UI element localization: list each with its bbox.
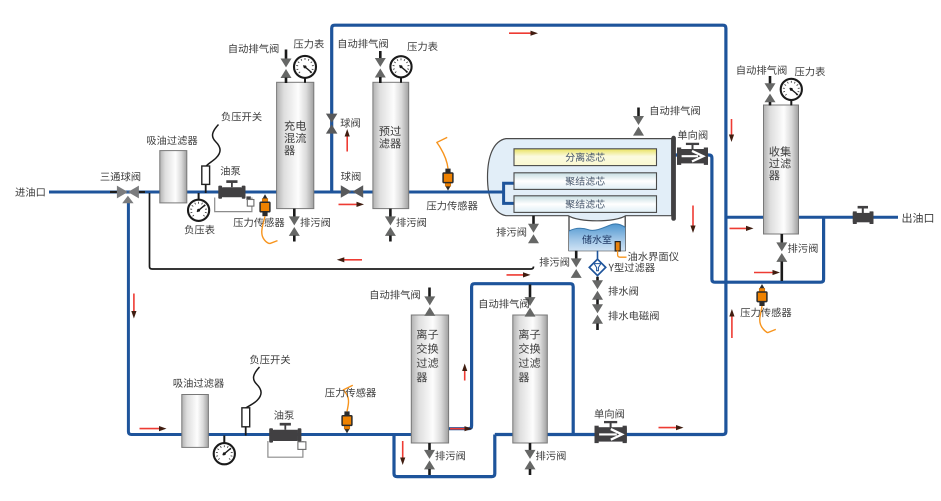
pressure gauge 压力表 on pre-filter: [400, 77, 402, 83]
auto exhaust valve 自动排气阀 on separator: [637, 108, 640, 118]
separation element 分离滤芯: [514, 149, 657, 166]
label: 油水界面仪: [628, 252, 679, 262]
oil pump 油泵 (bottom): [280, 423, 291, 426]
drain valve 排污阀 under charge mixer: [293, 209, 296, 217]
label: 排污阀 tank: [497, 227, 527, 236]
label: 压力传感器 3: [325, 388, 376, 398]
ball valve 球阀 on main line: [341, 185, 363, 198]
vacuum gauge 负压表 (bottom, unlabeled): [223, 436, 225, 444]
separator tank right end plate: [671, 136, 676, 221]
pressure sensor 压力传感器 on outlet bottom line: [760, 284, 765, 288]
flow arrow: after bottom check valve: [659, 427, 679, 429]
label: 吸油过滤器 top: [147, 136, 197, 146]
flow arrow: drain recirculation line toward left: [342, 259, 362, 261]
label: 预过滤器 (in vessel): [379, 126, 401, 136]
wire: interface probe cable: [618, 251, 627, 258]
label: 油泵 top: [221, 166, 241, 175]
suction filter 吸油过滤器 (top): [160, 151, 187, 203]
vacuum gauge 负压表 (top): [198, 193, 200, 200]
label: 自动排气阀 ion filter 2: [480, 299, 529, 309]
flow arrow: downcomer top: [731, 119, 733, 137]
label: 三通球阀: [101, 172, 141, 181]
flow arrow: bottom outlet link: [754, 272, 775, 274]
flow arrow: ion filter 1 outlet: [450, 428, 467, 430]
label: 排污阀 ion 1: [435, 451, 465, 460]
vacuum switch 负压开关 (bottom): [246, 367, 261, 408]
drain valve 排污阀 under collection filter: [780, 234, 783, 243]
label: 压力传感器 1: [234, 218, 285, 228]
label: 自动排气阀 separator: [651, 106, 700, 116]
label: 吸油过滤器 bottom: [174, 378, 224, 388]
label: 出油口 outlet: [903, 213, 933, 223]
label: 自动排气阀 ion filter 1: [371, 290, 420, 300]
outlet shut-off valve: [853, 213, 874, 222]
wire: coalescer feed manifold: [504, 183, 515, 203]
oil pump 油泵 (top): [226, 180, 237, 183]
auto exhaust valve 自动排气阀 on ion filter 1: [428, 288, 431, 298]
wire: main inlet pipe from inlet to separator tank: [49, 191, 506, 194]
flow arrow: bottom supply line: [140, 428, 162, 430]
flow arrow: riser up: [346, 134, 348, 152]
flow arrow: merge riser up: [464, 369, 466, 381]
ion exchange filter 2 离子交换过滤器: [513, 315, 548, 443]
flow arrow: after main ball valve: [339, 203, 360, 205]
pressure sensor 压力传感器 bottom line: [345, 429, 350, 433]
label: 排水电磁阀: [608, 311, 658, 320]
label: 负压表: [185, 225, 215, 234]
label: 自动排气阀 pre-filter: [339, 39, 388, 49]
Y strainer Y型过滤器: [597, 251, 599, 259]
suction filter 吸油过滤器 (bottom): [182, 395, 209, 448]
label: 排污阀 mixer: [300, 218, 330, 227]
charge mixer vessel 充电混流器: [277, 82, 314, 208]
three-way ball valve 三通球阀: [110, 191, 120, 193]
separator tank body: [488, 139, 672, 216]
drain valve 排污阀 under ion filter 2: [529, 443, 532, 451]
auto exhaust valve 自动排气阀 on collection filter: [769, 76, 772, 85]
auto exhaust valve 自动排气阀 on charge mixer: [285, 50, 288, 60]
check valve 单向阀 (ion filter outlet): [595, 426, 599, 443]
label: 排污阀 ion 2: [536, 451, 566, 460]
pressure gauge 压力表 on mixer: [304, 78, 306, 83]
drain valve 排污阀 on tank bottom: [532, 216, 535, 225]
label: 充电混流器 (in vessel): [285, 120, 306, 130]
label: 聚结滤芯 upper: [566, 176, 605, 185]
label: 压力传感器 2: [427, 201, 478, 211]
label: Y型过滤器: [608, 263, 654, 273]
wire: bypass riser and top return pipe into right downcomer: [332, 25, 726, 434]
auto exhaust valve 自动排气阀 on pre-filter: [379, 51, 382, 60]
flow arrow: down beside separator outlet: [692, 206, 694, 229]
label: 压力表 pre-filter: [407, 42, 437, 52]
drain valve 排水阀: [596, 277, 599, 281]
label: 排污阀 collection: [788, 243, 818, 252]
wire: recirculation drain line from main pipe to tank drain valve: [150, 193, 534, 269]
flow arrow: right riser up: [731, 314, 733, 338]
pressure gauge 压力表 on collection filter: [790, 100, 792, 106]
wire: ion filter 2 feed under-loop: [394, 435, 514, 477]
label: 离子交换过滤器 2 (in vessel): [519, 329, 540, 339]
wire: ion filter 1 outlet up-and-over to merge point: [449, 284, 573, 435]
label: 球阀 main: [341, 171, 360, 180]
drain valve 排污阀 under pre-filter: [389, 209, 392, 217]
wire: three-way valve drop pipe and bottom supply line: [128, 199, 412, 435]
pressure sensor 压力传感器 before separator: [446, 186, 451, 190]
solenoid drain valve 排水电磁阀: [596, 300, 599, 305]
drain valve 排污阀 under water chamber: [575, 251, 578, 259]
label: 自动排气阀 collection: [737, 65, 786, 75]
check valve 单向阀 (separator outlet): [677, 148, 681, 165]
wire: collection filter outlet pipe to oil outlet: [798, 216, 898, 219]
flow arrow: top return pipe: [509, 32, 533, 34]
flow arrow: into collection filter: [730, 227, 749, 229]
flow arrow: left drop pipe down: [133, 294, 135, 314]
coalescing element 聚结滤芯 upper: [514, 173, 657, 190]
label: 排水阀: [608, 286, 638, 295]
label: 压力表 collection: [795, 67, 825, 77]
label: 进油口 inlet: [15, 187, 44, 196]
label: 负压开关 bottom: [250, 355, 290, 365]
label: 储水室: [582, 235, 611, 244]
pressure sensor 压力传感器 after top pump: [263, 194, 268, 198]
label: 油泵 bottom: [274, 410, 294, 419]
oil-water interface probe 油水界面仪: [615, 242, 620, 251]
wire: branch from downcomer to collection filter inlet: [726, 216, 764, 219]
ion exchange filter 1 离子交换过滤器: [411, 315, 448, 443]
label: 负压开关 top: [221, 112, 261, 122]
ball valve 球阀 on riser: [326, 114, 338, 134]
label: 单向阀 bottom: [595, 409, 624, 418]
flow arrow: drain recirculation line: [507, 274, 526, 276]
collection filter vessel 收集过滤器: [764, 105, 799, 234]
pre-filter vessel 预过滤器: [373, 82, 409, 208]
vacuum switch 负压开关 (top): [206, 125, 220, 167]
label: 单向阀 top: [678, 130, 707, 139]
label: 收集过滤器 (in vessel): [769, 146, 790, 156]
auto exhaust valve 自动排气阀 on ion filter 2: [529, 285, 532, 299]
label: 离子交换过滤器 1 (in vessel): [417, 329, 438, 339]
wire: separator outlet through check valve, down and across to outlet pipe: [656, 155, 824, 282]
water chamber 储水室 under separator: [569, 216, 625, 251]
label: 自动排气阀 mixer: [229, 44, 278, 54]
label: 压力传感器 4: [741, 308, 792, 318]
label: 压力表 mixer: [294, 39, 324, 49]
label: 球阀 riser: [341, 118, 360, 127]
drain valve 排污阀 under ion filter 1: [428, 443, 431, 451]
coalescing element 聚结滤芯 lower: [514, 196, 657, 213]
wire: ion filter 2 outlet to bottom check valve and right riser: [546, 433, 622, 436]
label: 聚结滤芯 lower: [566, 199, 605, 208]
label: 排污阀 pre-filter: [396, 218, 426, 227]
wire: main line across tank cap: [486, 191, 505, 194]
label: 分离滤芯: [566, 152, 605, 161]
label: 排污阀 chamber: [540, 257, 570, 266]
separator tank bottom sag over water chamber: [568, 215, 626, 222]
flow arrow: under-loop down: [402, 441, 404, 460]
